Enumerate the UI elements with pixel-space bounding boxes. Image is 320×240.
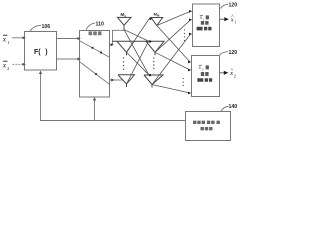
svg-text:F(: F(	[34, 49, 41, 56]
svg-text:1: 1	[234, 20, 236, 25]
svg-text:140: 140	[229, 104, 238, 110]
svg-text:2: 2	[234, 74, 236, 79]
svg-text:MM: MM	[154, 12, 160, 18]
svg-text:2: 2	[202, 67, 204, 71]
svg-text:106: 106	[42, 24, 51, 30]
svg-text:): )	[45, 49, 47, 56]
svg-text:120: 120	[229, 2, 238, 8]
svg-text:1: 1	[203, 17, 205, 21]
svg-text:110: 110	[96, 22, 104, 28]
svg-text:120: 120	[229, 50, 238, 56]
svg-text:M1: M1	[121, 12, 127, 18]
